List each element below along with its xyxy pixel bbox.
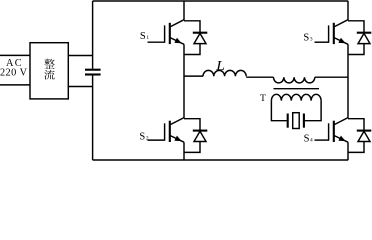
transistor S2: collector lead — [170, 118, 184, 125]
diode D3 triangle — [358, 33, 370, 43]
wire: midpoint to inductor — [184, 75, 203, 77]
wire: DC bus lower — [92, 76, 94, 161]
diode D1 branch top wire — [184, 21, 200, 33]
transistor S2: emitter lead with arrow — [170, 135, 184, 142]
transistor S1: gate lead — [148, 41, 165, 43]
diode D3 branch top wire — [348, 21, 364, 33]
transistor S3: emitter lead with arrow — [334, 38, 348, 45]
rectifier box 整流 — [30, 43, 68, 99]
transformer T secondary winding (5 humps up) — [271, 94, 321, 100]
transistor S1: main bar — [169, 23, 171, 44]
wire: AC input bottom — [0, 84, 30, 86]
diode D4 cathode bar — [357, 130, 372, 132]
transistor S1: emitter lead with arrow — [170, 38, 184, 45]
wire: DC bus upper — [92, 1, 94, 69]
diode D1 cathode bar — [193, 32, 208, 34]
diode D3 cathode bar — [357, 32, 372, 34]
transistor S4: collector lead — [334, 118, 348, 125]
capacitor C bottom plate — [85, 73, 101, 75]
svg-text:L: L — [215, 59, 225, 74]
wire: right leg top segment — [347, 1, 349, 20]
transistor S2: gate bar — [164, 123, 166, 140]
transistor S3: collector lead — [334, 20, 348, 27]
svg-text:220 V: 220 V — [0, 67, 28, 78]
transistor S4: emitter lead with arrow — [334, 135, 348, 142]
diode D2 cathode bar — [193, 130, 208, 132]
diode D4 branch top wire — [348, 119, 364, 131]
wire: left leg bottom segment — [183, 142, 185, 160]
transistor S3: main bar — [333, 23, 335, 44]
wire: left leg middle segment — [183, 44, 185, 118]
transistor S2: gate lead — [148, 139, 165, 141]
transistor S1: collector lead — [170, 20, 184, 27]
transformer T primary winding (4 humps down) — [274, 77, 315, 83]
diode D2 branch bottom wire — [184, 142, 200, 153]
diode D1 triangle — [194, 33, 206, 43]
diode D1 branch bottom wire — [184, 44, 200, 55]
transistor S1: gate bar — [164, 25, 166, 42]
wire: rectifier output bottom — [68, 86, 92, 88]
wire: secondary right lead — [303, 101, 321, 121]
transistor S4: gate lead — [315, 139, 329, 141]
wire: bottom DC rail — [93, 159, 349, 161]
wire: secondary left lead — [271, 101, 286, 121]
diode D3 branch bottom wire — [348, 44, 364, 55]
transistor S4: gate bar — [328, 123, 330, 140]
diode D4 branch bottom wire — [348, 142, 364, 153]
capacitor C (filter) top plate — [85, 69, 101, 71]
diode D2 triangle — [194, 131, 206, 141]
piezo transducer body box — [293, 113, 300, 129]
transistor S2: main bar — [169, 121, 171, 142]
wire: AC input top — [0, 54, 30, 56]
wire: primary to right leg midpoint — [315, 76, 348, 78]
piezo transducer left plate — [287, 114, 289, 128]
svg-text:T: T — [260, 93, 266, 104]
transistor S3: gate bar — [328, 25, 330, 42]
wire: right leg bottom segment — [347, 142, 349, 160]
wire: rectifier output top — [68, 55, 92, 57]
transistor S3: gate lead — [315, 41, 329, 43]
transformer T core — [274, 88, 320, 90]
wire: top DC rail — [93, 0, 349, 2]
piezo transducer right plate — [303, 114, 305, 128]
inductor L (4 humps) — [203, 70, 246, 76]
wire: left leg top segment — [183, 1, 185, 20]
transistor S4: main bar — [333, 121, 335, 142]
diode D2 branch top wire — [184, 119, 200, 131]
wire: inductor to transformer primary — [246, 76, 273, 78]
diode D4 triangle — [358, 131, 370, 141]
wire: right leg middle segment — [347, 44, 349, 118]
